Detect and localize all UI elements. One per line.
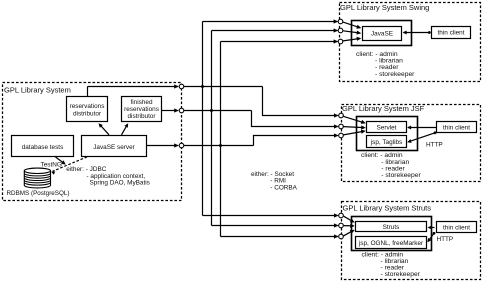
svg-text:distributor: distributor [73, 111, 102, 118]
svg-text:TestNG: TestNG [41, 161, 62, 168]
svg-text:jsp, Taglibs: jsp, Taglibs [370, 139, 403, 146]
svg-text:thin client: thin client [438, 30, 465, 37]
svg-text:database tests: database tests [22, 144, 64, 151]
svg-text:GPL Library System Swing: GPL Library System Swing [340, 3, 429, 12]
svg-text:HTTP: HTTP [437, 236, 454, 243]
svg-text:jsp, OGNL, freeMarker: jsp, OGNL, freeMarker [358, 240, 424, 247]
svg-text:- storekeeper: - storekeeper [381, 172, 421, 179]
svg-text:GPL Library System Struts: GPL Library System Struts [343, 203, 432, 212]
svg-text:reservations: reservations [124, 106, 159, 113]
svg-text:thin client: thin client [443, 124, 470, 131]
svg-text:finished: finished [130, 99, 152, 106]
svg-text:GPL Library System JSF: GPL Library System JSF [342, 104, 425, 113]
svg-text:reservations: reservations [70, 103, 105, 110]
svg-text:Servlet: Servlet [377, 125, 397, 132]
svg-text:Struts: Struts [383, 224, 400, 231]
svg-text:JavaSE server: JavaSE server [93, 144, 135, 151]
svg-text:RDBMS (PostgreSQL): RDBMS (PostgreSQL) [7, 190, 70, 197]
svg-text:HTTP: HTTP [426, 142, 443, 149]
svg-text:- CORBA: - CORBA [270, 184, 297, 191]
svg-text:- storekeeper: - storekeeper [381, 271, 421, 278]
svg-text:thin client: thin client [443, 224, 470, 231]
svg-text:GPL Library System: GPL Library System [4, 86, 71, 95]
svg-text:- storekeeper: - storekeeper [375, 71, 415, 78]
svg-text:JavaSE: JavaSE [371, 31, 393, 38]
svg-text:Spring DAO, MyBatis: Spring DAO, MyBatis [90, 180, 150, 187]
svg-text:distributor: distributor [127, 113, 156, 120]
